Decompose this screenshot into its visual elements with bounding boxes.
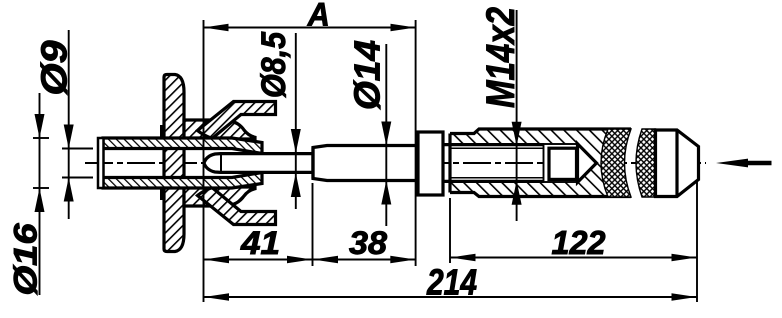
dim Ø8,5 line [295, 33, 297, 209]
body outline bottom [450, 193, 631, 197]
body outline top [450, 129, 631, 134]
tube top wall (hatched) [103, 138, 262, 154]
dim Ø9 line [68, 30, 70, 219]
cup rim strip upper [198, 102, 276, 139]
svg-text:122: 122 [552, 224, 607, 261]
shoulder cone and cylinder Ø14 [313, 146, 418, 181]
direction arrow (right) [742, 161, 772, 166]
tick lines Ø9 [62, 148, 93, 150]
knurl band 2 [636, 129, 656, 197]
extension line x697 [696, 181, 698, 302]
tube left end face [98, 138, 104, 188]
thread root top (thin) [450, 147, 544, 149]
cap inner line [675, 130, 678, 197]
knurl band 1 [601, 129, 631, 197]
body left face [448, 134, 451, 193]
svg-text:M14x2: M14x2 [479, 7, 523, 108]
dim 214 line [204, 296, 697, 298]
extension line x415.6 [415, 20, 417, 266]
extension line x450 [449, 198, 451, 263]
end cap [656, 130, 699, 197]
dim 41 line [204, 259, 312, 261]
extension line x312.5 [312, 183, 314, 266]
dim 38 line [313, 259, 415, 261]
flange nub top [160, 125, 165, 138]
flange nub bottom [160, 188, 165, 200]
svg-text:38: 38 [349, 225, 387, 261]
needle bullet base line [220, 154, 222, 173]
inner screw bold head [549, 148, 577, 179]
dim A line [204, 27, 416, 29]
flange F1 (pressure plate, hatched) [164, 75, 184, 252]
svg-text:41: 41 [240, 225, 280, 261]
shoulder face [311, 148, 314, 179]
needle rod [204, 154, 313, 173]
cup base mass upper [184, 120, 255, 139]
tube bottom wall (hatched) [103, 173, 262, 189]
inner screw cone point [578, 144, 597, 183]
svg-text:Ø9: Ø9 [34, 41, 75, 96]
cup base mass lower [184, 187, 255, 206]
square flange [418, 132, 443, 195]
dim Ø14 line [385, 44, 387, 226]
tick lines Ø16 [33, 137, 49, 139]
svg-text:214: 214 [426, 262, 477, 303]
svg-text:Ø8,5: Ø8,5 [255, 31, 293, 98]
body section (hatched) [450, 129, 608, 197]
dim 122 line [451, 257, 697, 259]
dim M14x2 line [516, 10, 518, 221]
thread bore bottom line [443, 180, 544, 183]
inner screw thin rect [544, 144, 578, 182]
cup rim strip lower [198, 188, 276, 225]
svg-text:A: A [307, 0, 330, 33]
centerline [85, 162, 706, 164]
svg-text:Ø16: Ø16 [8, 223, 44, 295]
thread root bottom (thin) [450, 177, 544, 179]
svg-text:Ø14: Ø14 [347, 40, 388, 110]
thread bore top line [443, 143, 544, 146]
extension line x203.5 [203, 20, 205, 302]
dim Ø16 line [39, 93, 41, 295]
